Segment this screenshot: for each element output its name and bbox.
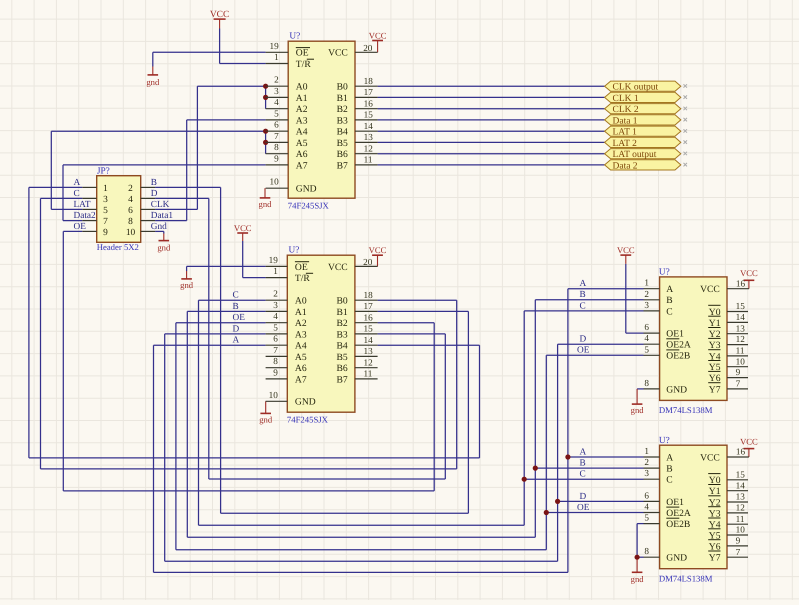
svg-text:GND: GND (295, 397, 316, 408)
junction net D decoder2 pin6 (555, 499, 560, 504)
power VCC decoder1 pin6 (617, 245, 635, 264)
decoder1 pin 10 stub Y5 (727, 366, 748, 368)
svg-text:A6: A6 (295, 363, 307, 374)
svg-text:A2: A2 (295, 318, 307, 329)
wire header pin8 Data1 (155, 220, 187, 222)
svg-text:B7: B7 (336, 374, 347, 385)
svg-text:5: 5 (273, 322, 278, 332)
pin 19 stub (266, 51, 289, 53)
svg-text:4: 4 (273, 311, 278, 321)
ground decoder1 pin8 (631, 389, 645, 415)
svg-text:U?: U? (289, 245, 300, 255)
svg-text:OE: OE (74, 222, 87, 232)
svg-text:B1: B1 (336, 307, 347, 318)
svg-text:D: D (151, 189, 158, 199)
wire net C far-left vertical (40, 198, 42, 469)
IC U? DM74LS138M lower decoder (660, 445, 727, 569)
decoder2 pin 4 stub (644, 512, 660, 514)
svg-text:20: 20 (363, 257, 373, 267)
svg-text:1: 1 (274, 52, 279, 62)
power VCC U2 pin20 (369, 245, 387, 266)
decoder2 overline Y1 (708, 484, 720, 486)
svg-text:8: 8 (644, 546, 649, 556)
wire VCC drop U2 pin1 (242, 241, 244, 278)
decoder2 overline OE2B (666, 517, 679, 519)
svg-text:5: 5 (103, 206, 108, 216)
power VCC top stem (219, 19, 221, 28)
power VCC decoder2 pin16 (740, 436, 758, 457)
IC U? DM74LS138M upper decoder (660, 277, 727, 401)
svg-text:GND: GND (666, 384, 687, 395)
svg-text:OE2B: OE2B (666, 351, 690, 362)
wire decoder1 pin8 gnd (637, 388, 643, 390)
wire decoder1 pin3 C (524, 310, 643, 312)
wire VCC drop decoder1 pin6 (625, 264, 627, 333)
header pin 5 stub (82, 208, 96, 210)
decoder1 overline Y3 (708, 337, 720, 339)
decoder1 pin 14 stub Y1 (727, 321, 748, 323)
svg-text:OE: OE (233, 313, 246, 323)
decoder2 pin 5 stub (644, 523, 660, 525)
svg-text:gnd: gnd (180, 280, 194, 290)
svg-text:18: 18 (364, 290, 374, 300)
junction net B decoder2 pin2 (533, 466, 538, 471)
svg-text:2: 2 (128, 184, 133, 194)
svg-text:B: B (151, 178, 157, 188)
pin 14 stub B4 (355, 344, 378, 346)
svg-text:1: 1 (273, 266, 278, 276)
wire U2 pin5 (165, 333, 266, 335)
pin 12 stub B6 (355, 367, 378, 369)
ground decoder2 pin8/pin5 (631, 559, 645, 584)
svg-text:C: C (233, 291, 239, 301)
IC U? 74F245SJX top octal transceiver (288, 41, 355, 198)
decoder2 pin 10 stub Y5 (727, 534, 748, 536)
wire gnd drop header (163, 231, 165, 233)
wire U1 pin6 A4 to LAT (51, 130, 265, 132)
wire net B vertical (220, 187, 222, 513)
decoder2 pin 9 stub Y6 (727, 545, 748, 547)
svg-text:11: 11 (364, 155, 373, 165)
svg-text:14: 14 (364, 121, 374, 131)
svg-text:VCC: VCC (328, 48, 348, 59)
svg-text:14: 14 (736, 312, 746, 322)
decoder1 overline OE2B (666, 349, 679, 351)
wire U2 pin3 (187, 310, 265, 312)
svg-text:VCC: VCC (210, 10, 230, 20)
svg-text:A5: A5 (295, 352, 307, 363)
svg-text:12: 12 (736, 503, 746, 513)
svg-text:6: 6 (644, 490, 649, 500)
svg-text:11: 11 (736, 346, 745, 356)
svg-text:9: 9 (736, 536, 741, 546)
wire U2 pin2 (199, 299, 266, 301)
wire header pin2 B (155, 186, 221, 188)
svg-text:A1: A1 (295, 307, 307, 318)
svg-text:OE: OE (577, 346, 590, 356)
pin 11 stub B7 (355, 378, 378, 380)
wire decoder2 pin2 B (535, 467, 643, 469)
decoder2 overline Y7 (708, 550, 720, 552)
decoder2 overline Y0 (708, 473, 720, 475)
wire U2 pin6 vertical down (153, 345, 155, 572)
svg-text:Gnd: Gnd (151, 222, 167, 232)
wire top U1 pin19 to gnd (153, 51, 266, 53)
svg-text:Y7: Y7 (709, 553, 721, 564)
pin 10 stub (266, 187, 289, 189)
svg-text:D: D (580, 335, 587, 345)
svg-text:OE2B: OE2B (666, 519, 690, 530)
wire U2 B2 (378, 322, 435, 324)
svg-text:A7: A7 (296, 160, 308, 171)
svg-text:18: 18 (364, 76, 374, 86)
wire decoder2 pin5 drop to gnd node (636, 524, 638, 558)
pin 6 stub (266, 344, 288, 346)
pin 15 stub B3 (355, 119, 378, 121)
svg-text:Data2: Data2 (74, 211, 97, 221)
wire Data1 vertical to header pin8 (186, 120, 188, 221)
svg-text:B1: B1 (337, 93, 348, 104)
svg-text:U?: U? (659, 268, 670, 278)
svg-text:20: 20 (363, 43, 373, 53)
wire net OE far-left vertical (62, 231, 64, 491)
decoder2 pin 1 stub (644, 456, 660, 458)
wire U1 B5 to port (378, 141, 605, 143)
svg-text:CLK: CLK (151, 200, 170, 210)
pin 6 stub (266, 130, 289, 132)
decoder1 pin 5 stub (644, 354, 660, 356)
wire net A left run (29, 457, 480, 459)
wire net OE decoder vertical (545, 355, 547, 550)
wire decoder1 pin2 B (535, 299, 643, 301)
wire U2 pin4 (176, 322, 266, 324)
wire gnd drop left (152, 52, 154, 66)
decoder2 overline Y6 (708, 539, 720, 541)
svg-text:VCC: VCC (700, 452, 720, 463)
wire tie pins 6-7-8 (265, 131, 267, 154)
decoder2 pin 11 stub Y4 (727, 523, 748, 525)
svg-text:A6: A6 (296, 149, 308, 160)
svg-text:5: 5 (644, 344, 649, 354)
wire decoder2 pin4 OE (546, 512, 643, 514)
wire U2 B3 (378, 333, 446, 335)
svg-text:8: 8 (274, 142, 279, 152)
wire net D vertical (208, 198, 210, 479)
junction net OE decoder2 pin4 (544, 510, 549, 515)
svg-text:B: B (580, 459, 586, 469)
wire to U1 pin1 T/R (220, 63, 266, 65)
svg-text:13: 13 (364, 132, 374, 142)
svg-text:A3: A3 (295, 329, 307, 340)
pin 2 stub (266, 299, 288, 301)
wire gnd drop U2 (186, 266, 188, 271)
decoder1 pin 4 stub (644, 343, 660, 345)
svg-text:A: A (580, 279, 587, 289)
svg-text:16: 16 (736, 278, 746, 288)
header pin 4 stub (141, 197, 155, 199)
wire tie pins 2-3-4 (265, 86, 267, 109)
svg-text:A: A (233, 336, 240, 346)
port Data 1 (605, 115, 687, 127)
wire net OE left run (63, 490, 434, 492)
svg-text:GND: GND (666, 553, 687, 564)
svg-text:10: 10 (269, 390, 279, 400)
wire U2 pin3 vertical down (186, 311, 188, 537)
pin 1 stub (266, 63, 289, 65)
pin 9 stub (266, 378, 288, 380)
decoder1 pin 12 stub Y3 (727, 344, 748, 346)
wire U2 pin19 to gnd (187, 265, 266, 267)
svg-text:A0: A0 (296, 82, 308, 93)
decoder1 overline Y6 (708, 370, 720, 372)
decoder1 overline Y5 (708, 360, 720, 362)
svg-text:17: 17 (364, 301, 374, 311)
svg-text:B2: B2 (337, 104, 348, 115)
svg-text:3: 3 (644, 468, 649, 478)
svg-text:10: 10 (736, 356, 746, 366)
svg-text:C: C (666, 475, 672, 486)
svg-text:CLK output: CLK output (613, 83, 659, 93)
power VCC decoder1 pin16 (740, 268, 758, 289)
wire U2 B3 vertical down (444, 334, 446, 479)
header pin 8 stub (141, 220, 155, 222)
svg-text:3: 3 (644, 300, 649, 310)
wire U1 B7 to port (378, 164, 605, 166)
pin 5 stub (266, 333, 288, 335)
wire decoder2 pin5 OE2B to gnd (637, 523, 643, 525)
svg-text:A: A (74, 178, 81, 188)
header pin 10 stub (141, 230, 155, 232)
svg-text:13: 13 (736, 492, 746, 502)
svg-text:D: D (580, 492, 587, 502)
svg-text:8: 8 (128, 217, 133, 227)
svg-text:VCC: VCC (617, 245, 635, 255)
wire net C left run (41, 468, 457, 470)
svg-text:14: 14 (364, 335, 374, 345)
svg-text:15: 15 (364, 324, 374, 334)
wire header pin7 Data2 (63, 220, 82, 222)
pin 19 stub (266, 265, 288, 267)
svg-text:B5: B5 (337, 138, 348, 149)
wire net A decoder vertical (567, 289, 569, 573)
wire U1 pin9 A7 to Data2 (63, 164, 266, 166)
svg-text:6: 6 (274, 120, 279, 130)
svg-text:LAT output: LAT output (613, 150, 657, 160)
wire net D bottom run (165, 560, 558, 562)
svg-text:C: C (580, 301, 586, 311)
IC U? 74F245SJX middle octal transceiver (287, 255, 355, 412)
svg-text:B5: B5 (336, 352, 347, 363)
svg-text:B0: B0 (337, 82, 348, 93)
svg-text:74F245SJX: 74F245SJX (287, 414, 329, 424)
wire U2 pin6 (154, 344, 266, 346)
wire U2 pin4 vertical down (175, 323, 177, 550)
svg-text:8: 8 (273, 356, 278, 366)
junction U1 pin3 (263, 95, 268, 100)
decoder2 overline Y4 (708, 517, 720, 519)
wire U2 B4 (378, 344, 480, 346)
svg-text:3: 3 (273, 300, 278, 310)
decoder1 pin 8 stub (644, 388, 660, 390)
svg-text:C: C (666, 306, 672, 317)
wire decoder2 pin6 D (558, 500, 644, 502)
svg-text:T/R: T/R (295, 273, 311, 284)
decoder2 pin 16 stub (727, 456, 749, 458)
svg-text:13: 13 (364, 346, 374, 356)
svg-text:B0: B0 (336, 296, 347, 307)
wire decoder2 pin8 gnd (637, 556, 643, 558)
svg-text:B4: B4 (337, 127, 348, 138)
wire net C bottom run (199, 524, 525, 526)
svg-text:B3: B3 (336, 329, 347, 340)
pin 8 stub (266, 367, 288, 369)
svg-text:11: 11 (364, 369, 373, 379)
wire VCC top drop (219, 29, 221, 64)
wire net B left run (221, 512, 469, 514)
junction U1 pin2 (263, 84, 268, 89)
header pin 7 stub (82, 220, 96, 222)
wire decoder2 pin3 C (524, 478, 643, 480)
overline R (306, 272, 313, 274)
pin 16 stub B2 (355, 108, 378, 110)
svg-text:VCC: VCC (740, 436, 758, 446)
svg-text:14: 14 (736, 480, 746, 490)
wire U1 B1 to port (378, 96, 605, 98)
decoder1 pin 7 stub Y7 (727, 388, 748, 390)
svg-text:OE: OE (296, 48, 309, 59)
decoder2 pin 15 stub Y0 (727, 479, 748, 481)
svg-text:VCC: VCC (328, 262, 348, 273)
svg-text:C: C (580, 470, 586, 480)
port CLK output (605, 81, 687, 93)
pin 2 stub (266, 85, 289, 87)
power VCC top bar (214, 18, 226, 20)
wire U1 B2 to port (378, 108, 605, 110)
svg-text:9: 9 (273, 367, 278, 377)
svg-text:15: 15 (364, 110, 374, 120)
svg-text:VCC: VCC (700, 284, 720, 295)
svg-text:4: 4 (274, 97, 279, 107)
decoder1 overline Y1 (708, 315, 720, 317)
svg-text:9: 9 (736, 367, 741, 377)
wire U1 pin2 A0 (197, 85, 265, 87)
wire net OE bottom run (176, 549, 546, 551)
pin 15 stub B3 (355, 333, 378, 335)
svg-text:13: 13 (736, 323, 746, 333)
pin 17 stub B1 (355, 96, 378, 98)
wire Data2 vertical (62, 165, 64, 221)
wire decoder1 pin1 A (568, 288, 644, 290)
wire U2 B0 vertical down (456, 300, 458, 469)
svg-text:DM74LS138M: DM74LS138M (659, 573, 713, 583)
svg-text:gnd: gnd (631, 405, 645, 415)
decoder2 pin 2 stub (644, 467, 660, 469)
ground top-left (146, 67, 160, 87)
overline R (307, 58, 314, 60)
svg-text:1: 1 (644, 446, 649, 456)
decoder2 overline Y3 (708, 506, 720, 508)
svg-text:A: A (580, 447, 587, 457)
svg-text:gnd: gnd (259, 199, 273, 209)
decoder2 overline OE2A (666, 506, 679, 508)
wire U2 B4 vertical down (479, 345, 481, 458)
wire net A bottom run (154, 571, 568, 573)
svg-text:GND: GND (296, 184, 317, 195)
decoder2 pin 8 stub (644, 556, 660, 558)
svg-text:CLK 2: CLK 2 (613, 105, 639, 115)
svg-text:B: B (666, 295, 672, 306)
decoder1 overline Y0 (708, 304, 720, 306)
connector JP? Header 5X2 (97, 176, 141, 243)
svg-text:B: B (580, 290, 586, 300)
svg-text:16: 16 (736, 447, 746, 457)
wire net C decoder vertical (523, 311, 525, 525)
wire header pin9 OE (63, 230, 82, 232)
svg-text:LAT 2: LAT 2 (613, 139, 638, 149)
wire U2 pin5 vertical down (164, 334, 166, 561)
svg-text:OE: OE (295, 262, 308, 273)
wire net D decoder vertical (557, 344, 559, 561)
wire U2 B1 (378, 310, 469, 312)
decoder1 overline OE2A (666, 338, 679, 340)
svg-text:gnd: gnd (631, 574, 645, 584)
svg-text:VCC: VCC (369, 31, 387, 41)
wire decoder1 pin5 OE (546, 354, 643, 356)
svg-text:Data 2: Data 2 (613, 161, 638, 171)
power VCC U2 pin1 (234, 223, 252, 241)
svg-text:4: 4 (128, 195, 133, 205)
decoder2 overline Y2 (708, 495, 720, 497)
svg-text:A7: A7 (295, 374, 307, 385)
decoder1 overline Y4 (708, 349, 720, 351)
svg-text:U?: U? (659, 436, 670, 446)
decoder1 pin 16 stub (727, 288, 749, 290)
wire U1 B6 to port (378, 153, 605, 155)
wire U2 pin2 vertical down (198, 300, 200, 525)
svg-text:B6: B6 (336, 363, 347, 374)
junction U1 pin7 (263, 140, 268, 145)
header pin 2 stub (141, 186, 155, 188)
svg-text:VCC: VCC (740, 268, 758, 278)
decoder2 pin 3 stub (644, 478, 660, 480)
svg-text:OE2A: OE2A (666, 340, 691, 351)
wire net B decoder vertical (534, 300, 536, 538)
svg-text:A2: A2 (296, 104, 308, 115)
decoder1 overline Y2 (708, 327, 720, 329)
port CLK 2 (605, 104, 687, 116)
svg-text:JP?: JP? (97, 167, 110, 177)
port Data 2 (605, 160, 687, 172)
svg-text:2: 2 (644, 457, 649, 467)
svg-text:6: 6 (128, 206, 133, 216)
power VCC U1 pin20 (369, 31, 387, 53)
svg-text:74F245SJX: 74F245SJX (288, 200, 330, 210)
wire U1 pin5 A3 (187, 119, 266, 121)
svg-text:12: 12 (736, 334, 746, 344)
svg-text:A5: A5 (296, 138, 308, 149)
svg-text:16: 16 (364, 313, 374, 323)
pin 5 stub (266, 119, 289, 121)
svg-text:T/R: T/R (296, 59, 312, 70)
svg-text:10: 10 (126, 228, 136, 238)
wire header pin3 C (41, 197, 83, 199)
pin 7 stub (266, 141, 289, 143)
pin 3 stub (266, 310, 288, 312)
svg-text:A1: A1 (296, 93, 308, 104)
svg-text:B7: B7 (337, 160, 348, 171)
svg-text:16: 16 (364, 99, 374, 109)
svg-text:LAT 1: LAT 1 (613, 128, 638, 138)
